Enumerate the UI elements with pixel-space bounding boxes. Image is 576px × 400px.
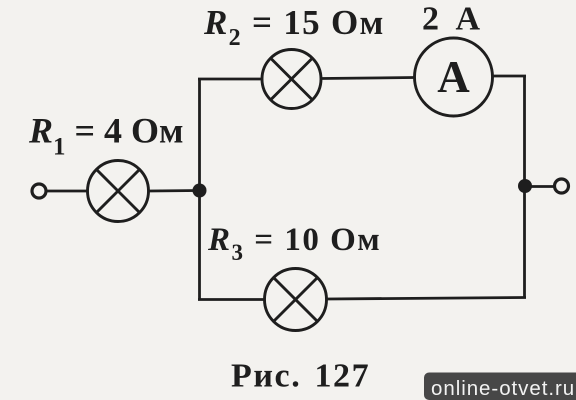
wire bottom-left to R3 — [198, 298, 265, 301]
wire top-left to R2 — [198, 78, 262, 81]
wire node-to-terminal right — [525, 185, 554, 188]
wire left bus vertical — [198, 79, 201, 300]
lamp R3 — [265, 269, 327, 331]
lamp R1 — [88, 161, 149, 222]
wire ammeter-to-corner — [493, 75, 527, 78]
wire terminal-to-R1 — [47, 190, 89, 193]
svg-text:2 А: 2 А — [422, 1, 482, 38]
node A (left junction) — [193, 184, 207, 198]
node B (right junction) — [518, 179, 532, 193]
wire right bus vertical — [523, 76, 526, 299]
svg-text:Рис. 127: Рис. 127 — [231, 358, 370, 395]
lamp R2 — [262, 50, 321, 109]
wire R3-to-corner — [327, 298, 527, 300]
wire R2-to-ammeter — [321, 78, 415, 79]
terminal left — [32, 184, 46, 198]
terminal right — [555, 179, 569, 193]
watermark badge — [424, 373, 576, 400]
svg-text:online-otvet.ru: online-otvet.ru — [431, 377, 575, 400]
wire R1-to-node — [149, 189, 200, 192]
svg-text:А: А — [437, 52, 470, 102]
ammeter U1 — [415, 38, 493, 116]
